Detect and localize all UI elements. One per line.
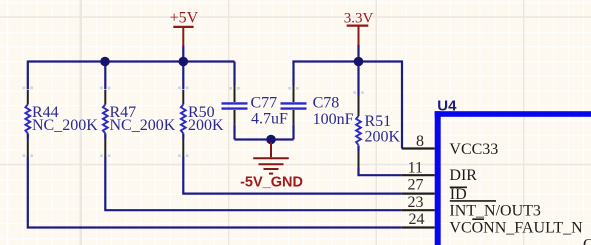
svg-text:27: 27 [408, 177, 424, 194]
svg-text:4.7uF: 4.7uF [251, 111, 288, 128]
svg-text:+5V: +5V [170, 10, 199, 27]
wire R47 top drop [104, 62, 106, 90]
svg-text:DIR: DIR [449, 167, 477, 184]
wire R51 top drop [357, 62, 359, 96]
IC U4 body border [435, 111, 591, 245]
wire C78 top lead [292, 62, 294, 86]
svg-text:200K: 200K [188, 117, 224, 134]
junction at R51 / 3.3V rail [354, 57, 364, 67]
power port 3.3V [347, 26, 369, 45]
resistor R51 [358, 96, 360, 169]
junction at ground rail [266, 135, 276, 145]
wire C77 bottom lead [233, 124, 235, 139]
wire R44 bottom to pin 24 row [28, 133, 402, 227]
svg-text:C77: C77 [251, 95, 278, 112]
pin 24 [402, 226, 435, 228]
wire C77 top lead [233, 62, 235, 86]
svg-text:VCC33: VCC33 [449, 141, 498, 158]
svg-text:3.3V: 3.3V [344, 11, 374, 27]
wire 3.3V net top rail to pin 8 [294, 62, 403, 149]
svg-text:C78: C78 [313, 95, 340, 112]
svg-text:8: 8 [416, 133, 424, 150]
svg-text:11: 11 [408, 160, 423, 177]
wire +5V stem lower part [182, 46, 184, 62]
wire R44 top drop [27, 61, 29, 90]
svg-text:-5V_GND: -5V_GND [240, 175, 303, 191]
resistor R50 [182, 90, 184, 157]
svg-text:200K: 200K [365, 129, 401, 146]
wire capacitor ground rail [235, 138, 294, 140]
junction at R50 / +5V rail [179, 57, 189, 67]
resistor R44 [27, 90, 29, 157]
pin 11 [402, 174, 435, 176]
pin 23 [402, 209, 435, 211]
svg-text:NC_200K: NC_200K [110, 117, 176, 134]
svg-text:VCONN_FAULT_N: VCONN_FAULT_N [449, 219, 583, 236]
wire C78 bottom lead [292, 124, 294, 139]
wire R50 bottom to pin 27 row [183, 133, 401, 193]
capacitor C78 [293, 85, 295, 125]
pin hotspot markers [23, 87, 364, 157]
svg-text:CF: CF [583, 236, 591, 245]
power port +5V [173, 27, 193, 46]
wire R51 bottom to pin 11 row [359, 145, 402, 175]
wire R50 top drop [182, 62, 184, 90]
pin 8 [402, 147, 435, 149]
svg-text:R51: R51 [365, 113, 392, 130]
svg-text:23: 23 [408, 194, 424, 211]
ground -5V_GND [253, 142, 289, 174]
wire R47 bottom to pin 23 row [105, 133, 402, 210]
pin 27 [402, 193, 435, 195]
wire 3.3V stem lower part [357, 45, 359, 62]
svg-text:100nF: 100nF [313, 111, 354, 128]
svg-text:NC_200K: NC_200K [32, 117, 98, 134]
resistor R47 [104, 90, 106, 157]
svg-text:U4: U4 [437, 97, 457, 114]
svg-text:INT_N/OUT3: INT_N/OUT3 [449, 203, 541, 220]
junction at R47 / +5V rail [100, 57, 110, 67]
wire +5V net top rail [28, 60, 235, 62]
svg-text:24: 24 [409, 211, 425, 228]
capacitor C77 [234, 85, 236, 125]
